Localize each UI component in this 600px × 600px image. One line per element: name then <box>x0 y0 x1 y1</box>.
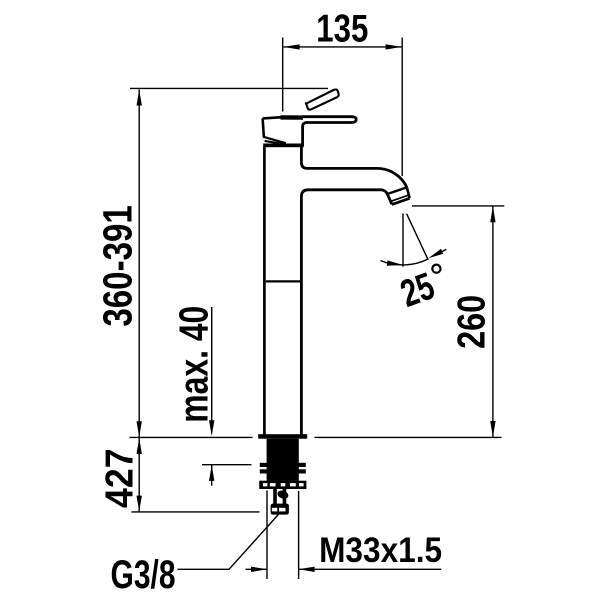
tailpiece end fitting <box>271 504 289 515</box>
svg-text:M33x1.5: M33x1.5 <box>319 530 442 570</box>
M33 dim line right (points left) <box>299 568 442 570</box>
end fitting white dashes <box>272 508 277 512</box>
column right edge upper + spout top <box>301 147 407 187</box>
column joint line <box>266 280 301 282</box>
svg-text:135: 135 <box>316 7 368 50</box>
tailpiece right leg <box>283 489 287 505</box>
head base bar <box>263 144 304 148</box>
column left edge <box>263 147 266 435</box>
lever knob left tick <box>305 102 308 104</box>
counter surface line right <box>315 436 502 438</box>
angle vertical reference line <box>402 214 404 267</box>
shank tab ring 2 <box>260 469 306 473</box>
ext line max40 <box>202 464 252 466</box>
M33 dim line left (points right) <box>246 568 268 570</box>
dim line max40 upper <box>211 307 213 423</box>
angle arrow at vertical <box>387 260 403 265</box>
ext line 135 right <box>401 38 403 177</box>
dim line 260 <box>492 206 494 437</box>
dim line 427 <box>138 438 140 512</box>
M33 ext line left <box>266 491 268 580</box>
svg-text:260: 260 <box>450 295 493 349</box>
head top-left edge <box>263 117 282 118</box>
counter surface line left <box>130 436 253 438</box>
ext line 135 left <box>282 38 284 112</box>
ext line 260 top <box>412 205 504 207</box>
svg-text:427: 427 <box>99 448 142 508</box>
angle arc <box>381 259 429 265</box>
head thick top segment <box>281 115 304 120</box>
svg-text:G3/8: G3/8 <box>111 553 176 597</box>
degree circle <box>432 265 440 273</box>
dim line 135 <box>284 46 402 48</box>
dim line 360-391 <box>138 90 140 438</box>
lever gap wedge <box>263 137 286 143</box>
tailpiece left leg <box>273 489 277 505</box>
nut white dashes <box>263 483 304 486</box>
M33 ext line right <box>298 491 300 579</box>
column right edge lower + spout bottom <box>301 190 392 435</box>
angle slant line <box>407 214 428 259</box>
spout collar right face <box>407 187 410 198</box>
angle arrow at slant <box>428 249 443 258</box>
svg-text:max. 40: max. 40 <box>171 306 217 423</box>
angle arrow tail line <box>441 249 447 252</box>
tailpiece olive blob <box>276 489 289 500</box>
lever arm outline <box>302 117 356 146</box>
G3/8 leader line <box>178 514 279 569</box>
ext line top (lever top) <box>130 87 328 89</box>
spout collar end face <box>392 198 410 204</box>
shank tab ring 1 <box>260 463 306 467</box>
svg-text:360-391: 360-391 <box>95 205 141 327</box>
mounting nut <box>259 481 306 489</box>
head left edge <box>263 118 264 137</box>
ext line 427 bottom <box>132 511 260 513</box>
base flange <box>258 434 307 439</box>
threaded shank <box>267 439 299 481</box>
lever knob (handle tip) <box>306 89 338 109</box>
spout collar top line <box>387 187 407 194</box>
dim line max40 lower <box>211 465 213 486</box>
spout collar inner line <box>391 195 409 201</box>
